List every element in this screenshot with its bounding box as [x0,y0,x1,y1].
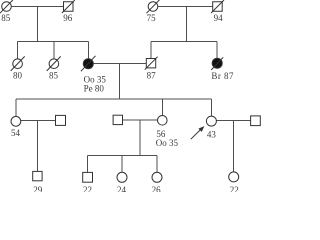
svg-text:Pe 80: Pe 80 [84,83,105,93]
svg-text:24: 24 [117,185,127,192]
svg-text:54: 54 [11,128,21,138]
svg-text:22: 22 [230,185,239,192]
svg-text:22: 22 [83,185,92,192]
svg-text:85: 85 [49,71,59,81]
svg-text:Oo 35: Oo 35 [156,138,179,148]
svg-text:87: 87 [147,71,157,81]
svg-text:80: 80 [13,71,23,81]
svg-text:43: 43 [207,129,217,139]
svg-text:29: 29 [33,185,43,192]
svg-text:96: 96 [63,13,72,23]
svg-text:Br 87: Br 87 [211,71,234,81]
svg-text:26: 26 [152,185,162,192]
svg-text:94: 94 [214,13,224,23]
svg-text:85: 85 [1,13,11,23]
svg-text:75: 75 [147,13,157,23]
